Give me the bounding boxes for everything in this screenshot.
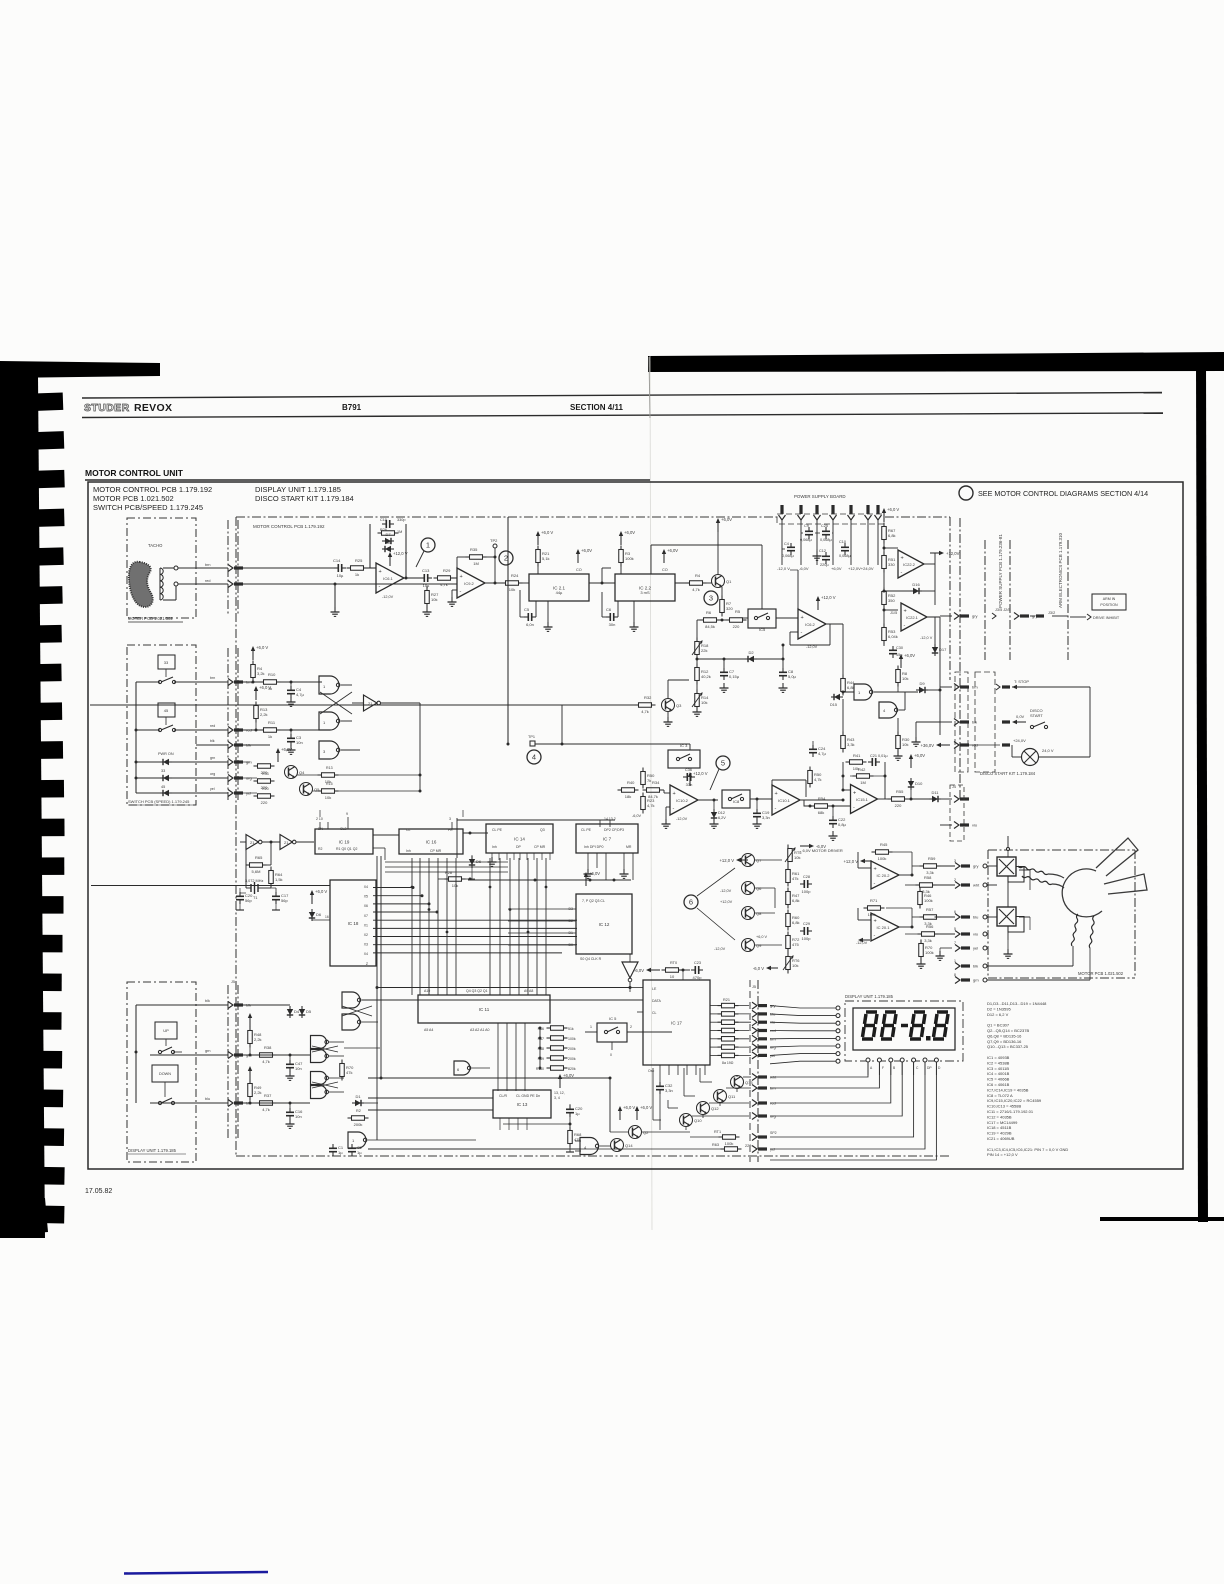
IC2.1 gnd (547, 601, 549, 625)
svg-text:DISCO START KIT 1.179.184: DISCO START KIT 1.179.184 (255, 494, 354, 503)
resistor R13c (322, 773, 335, 778)
svg-text:D15: D15 (830, 703, 837, 707)
svg-text:IC1,IC3,IC4,IC5,IC6,IC21: PI: IC1,IC3,IC4,IC5,IC6,IC21: PIN 7 = 0,0 V … (987, 1147, 1068, 1152)
callout 4 (527, 750, 541, 764)
IC18 wires right (373, 887, 413, 889)
svg-text:R6: R6 (706, 610, 712, 615)
svg-text:CL PE: CL PE (581, 828, 592, 832)
clock vertical B (380, 856, 382, 1078)
ic IC2.1 (529, 574, 589, 601)
svg-text:D1,D3...D11,D13...D19 = 1N4448: D1,D3...D11,D13...D19 = 1N4448 (987, 1001, 1047, 1006)
resistor R29 (438, 576, 451, 581)
svg-text:PWR ON: PWR ON (158, 752, 174, 756)
svg-text:IC2 = 4538B: IC2 = 4538B (987, 1060, 1010, 1065)
svg-text:IC 19: IC 19 (339, 840, 350, 845)
wire Q1 base (703, 582, 712, 584)
osc wires (240, 841, 246, 843)
svg-text:6,8k: 6,8k (792, 920, 800, 925)
svg-text:R65: R65 (255, 855, 263, 860)
svg-text:brn: brn (205, 563, 211, 567)
svg-text:IC22.2: IC22.2 (903, 562, 916, 567)
svg-text:IC17 = MC14499: IC17 = MC14499 (987, 1120, 1018, 1125)
svg-text:X5: X5 (364, 895, 368, 899)
svg-text:Q8: Q8 (756, 911, 762, 916)
svg-text:10k: 10k (902, 676, 908, 681)
resistor R40 (622, 788, 635, 793)
svg-text:J1/5: J1/5 (890, 611, 897, 615)
wire TP1 (535, 743, 690, 745)
svg-text:7: 7 (954, 941, 956, 945)
svg-text:+6,0 V: +6,0 V (541, 530, 553, 535)
svg-text:2: 2 (954, 878, 956, 882)
svg-text:-12,0V: -12,0V (382, 595, 394, 599)
svg-text:-12,0V: -12,0V (806, 645, 818, 649)
svg-text:J5: J5 (231, 980, 235, 984)
resistor R70 (340, 1064, 345, 1077)
svg-text:Q3: Q3 (540, 828, 545, 832)
driver wires (743, 1076, 751, 1078)
svg-text:J5: J5 (752, 985, 756, 989)
resistor R67 (882, 527, 887, 540)
svg-text:+12,0 V: +12,0 V (393, 551, 408, 556)
svg-text:IC15.1: IC15.1 (856, 797, 869, 802)
svg-text:-: - (460, 589, 462, 595)
resistor R56 (922, 932, 935, 937)
IC12 wires left (508, 908, 576, 910)
latch cross (341, 684, 352, 686)
svg-text:gry: gry (973, 864, 979, 869)
wire Q3 up (667, 680, 669, 699)
svg-text:IC18 = 4511B: IC18 = 4511B (987, 1125, 1012, 1130)
pwr rt0 (650, 969, 660, 971)
svg-text:J3/2: J3/2 (1048, 611, 1055, 615)
gate IC4b (580, 1138, 599, 1155)
disco row blk (954, 719, 959, 726)
pwr +6 below (900, 658, 902, 668)
svg-text:3: 3 (954, 859, 956, 863)
svg-text:100k: 100k (625, 556, 634, 561)
svg-text:R55: R55 (896, 789, 904, 794)
wire row brn (243, 681, 262, 683)
svg-text:IC 11: IC 11 (479, 1007, 490, 1012)
svg-text:10k: 10k (792, 963, 798, 968)
page fold line (650, 356, 652, 1230)
wire J15 (940, 615, 952, 617)
ic IC13 (493, 1090, 551, 1118)
svg-text:6,04k: 6,04k (888, 634, 898, 639)
svg-text:4,7k: 4,7k (647, 803, 655, 808)
wire long y705 (90, 704, 639, 706)
resistor R72 (786, 936, 791, 949)
svg-text:SP2: SP2 (770, 1131, 777, 1135)
resistor R32 (639, 703, 652, 708)
du row2 (150, 1054, 228, 1056)
svg-text:+6,0 V: +6,0 V (887, 507, 899, 512)
pot R18 (695, 642, 700, 655)
svg-text:6,0n: 6,0n (526, 622, 534, 627)
transistor Q8 (742, 907, 755, 920)
svg-text:CL: CL (652, 1011, 657, 1015)
svg-text:Q2...Q5,Q14 = BC237B: Q2...Q5,Q14 = BC237B (987, 1028, 1029, 1033)
svg-text:200k: 200k (568, 1057, 576, 1061)
svg-text:MOTOR CONTROL PCB 1.179.192: MOTOR CONTROL PCB 1.179.192 (93, 485, 212, 494)
svg-text:F: F (882, 1066, 884, 1070)
svg-text:IC 3: IC 3 (680, 743, 688, 748)
feedback network C15 (382, 523, 386, 525)
svg-text:blk: blk (205, 999, 210, 1003)
zener D17 (934, 644, 936, 656)
svg-text:IC4 = 4001B: IC4 = 4001B (987, 1071, 1010, 1076)
svg-text:grn: grn (210, 756, 215, 760)
hall sensor H2 (997, 907, 1016, 926)
resistor R41 (850, 760, 863, 765)
svg-text:D2: D2 (748, 650, 754, 655)
wire ic101 fb (771, 780, 773, 793)
disco gnd (940, 721, 952, 723)
svg-text:+6,0V: +6,0V (904, 653, 915, 658)
svg-text:IC8 = TL072 A: IC8 = TL072 A (987, 1093, 1013, 1098)
svg-text:2: 2 (504, 554, 508, 563)
svg-text:IC 14: IC 14 (514, 837, 525, 842)
svg-text:C13: C13 (422, 568, 430, 573)
tacho wire red (175, 584, 177, 600)
svg-text:grn: grn (973, 978, 979, 983)
svg-text:PIN 14 = +12,0 V: PIN 14 = +12,0 V (987, 1152, 1018, 1157)
svg-text:X6: X6 (364, 904, 368, 908)
main frame (88, 482, 1183, 1169)
wire LE long (377, 987, 630, 989)
svg-text:D12: D12 (718, 811, 725, 815)
svg-text:IC 20.1: IC 20.1 (877, 925, 891, 930)
opamp IC6.2 (798, 609, 826, 639)
driver emitters (736, 1089, 738, 1093)
svg-text:X4: X4 (364, 952, 368, 956)
svg-text:-6,0V: -6,0V (632, 814, 642, 818)
IC7 bottom stubs (587, 853, 589, 871)
svg-text:ARM IN: ARM IN (1103, 597, 1116, 601)
svg-text:10k: 10k (452, 883, 458, 888)
svg-text:0,068µ: 0,068µ (782, 554, 795, 558)
wire IC22 out (675, 582, 689, 584)
svg-text:X1: X1 (364, 923, 368, 927)
svg-text:CL2: CL2 (340, 827, 346, 831)
resistor R13b (254, 706, 259, 719)
resistor R21 (536, 550, 541, 563)
resistor R3 (619, 550, 624, 563)
zener D12 (713, 809, 715, 821)
svg-text:Q7: Q7 (756, 858, 762, 863)
pwr +6 r13 (255, 690, 257, 700)
svg-text:C10: C10 (839, 540, 846, 544)
svg-text:IC6 = 4061B: IC6 = 4061B (987, 1082, 1010, 1087)
opamp IC15.1 (851, 785, 878, 814)
svg-text:-: - (379, 584, 381, 590)
svg-text:47k: 47k (346, 1070, 352, 1075)
svg-text:IC 7: IC 7 (603, 837, 612, 842)
resistor R35 (470, 555, 483, 560)
svg-text:D12 = 6,2 V: D12 = 6,2 V (987, 1012, 1009, 1017)
svg-text:-: - (801, 630, 803, 636)
svg-text:5,6M: 5,6M (252, 869, 261, 874)
transistor Q4 (285, 766, 298, 779)
wire IC13 row (503, 1123, 570, 1125)
svg-text:CP MR: CP MR (430, 849, 442, 853)
motor control pcb frame bottom (236, 1155, 950, 1157)
svg-text:IC8: IC8 (733, 799, 740, 804)
svg-text:CL: CL (406, 828, 411, 832)
svg-text:+6,0V: +6,0V (721, 517, 732, 522)
IC9.2 out wire (485, 582, 506, 584)
pwr +6 Q1 (717, 522, 719, 532)
gate IC1b (879, 702, 897, 718)
resistor R20b (258, 794, 271, 799)
title underline (85, 479, 650, 481)
gate IC out (348, 1132, 366, 1148)
node R5R6 (717, 619, 729, 621)
cap C5 (524, 616, 528, 618)
svg-text:IC22.1: IC22.1 (906, 615, 919, 620)
IC19-16 wire (373, 834, 399, 836)
binding top bar (0, 361, 160, 378)
svg-text:IC21 = 4069UB: IC21 = 4069UB (987, 1136, 1015, 1141)
TP1 (530, 741, 535, 746)
blue pen line (124, 1572, 268, 1574)
svg-text:+: + (801, 615, 804, 621)
callout 1 (421, 538, 435, 552)
svg-text:-: - (904, 623, 906, 629)
svg-text:R11: R11 (268, 720, 276, 725)
header fold tick (649, 357, 650, 418)
pwr +12 q7 (740, 859, 748, 861)
svg-text:yel: yel (973, 946, 978, 951)
resistor R58 (920, 883, 933, 888)
svg-text:2: 2 (630, 1025, 632, 1029)
switch 33 (158, 680, 161, 683)
svg-text:D2 = 1N3595: D2 = 1N3595 (987, 1006, 1011, 1011)
svg-text:Osc: Osc (648, 1069, 654, 1073)
wire to IC9.2 (452, 577, 457, 579)
gate outputs (362, 1021, 378, 1023)
cap C20 (239, 892, 241, 896)
header top rule (82, 393, 1162, 399)
svg-text:3,3k: 3,3k (847, 742, 855, 747)
wire r57 (912, 916, 922, 918)
switch pcb dashed box (127, 645, 196, 805)
svg-text:220: 220 (895, 803, 902, 808)
svg-text:Q3: Q3 (676, 703, 682, 708)
pwr +6 d10 (910, 758, 912, 768)
cap C20b (569, 1105, 571, 1109)
hall sensor H1 (997, 857, 1016, 876)
resistor R50b (641, 772, 646, 785)
svg-text:+: + (379, 569, 382, 575)
svg-text:X2: X2 (364, 933, 368, 937)
psb gnd (816, 551, 818, 556)
svg-text:1: 1 (590, 1025, 592, 1029)
svg-text:Q6,Q8 = BD135-16: Q6,Q8 = BD135-16 (987, 1033, 1022, 1038)
svg-text:+6,0V: +6,0V (624, 530, 635, 535)
opamp IC20.2 (871, 861, 899, 889)
svg-text:100p: 100p (802, 936, 812, 941)
resistor R57 (924, 915, 937, 920)
svg-text:+6,0V: +6,0V (281, 747, 292, 752)
svg-text:IC10,IC13 = 4558B: IC10,IC13 = 4558B (987, 1104, 1021, 1109)
svg-text:IC12 = 4035B: IC12 = 4035B (987, 1114, 1012, 1119)
pwr +12 ic102 (689, 776, 691, 786)
svg-text:10n: 10n (295, 1066, 302, 1071)
box 33 (158, 655, 175, 669)
transistor Q9 (742, 939, 755, 952)
svg-text:IC10.1: IC10.1 (778, 798, 791, 803)
svg-text:CO: CO (662, 568, 668, 572)
svg-text:4,7k: 4,7k (814, 777, 822, 782)
svg-text:IC3 = 4011B: IC3 = 4011B (987, 1066, 1009, 1071)
bus horizontals (385, 861, 508, 863)
transistor Q1 (712, 575, 725, 588)
svg-text:6,8k: 6,8k (792, 898, 800, 903)
svg-text:X3: X3 (364, 943, 368, 947)
svg-text:grn: grn (205, 1049, 211, 1053)
display dash frame (845, 1001, 963, 1061)
svg-text:SEE MOTOR CONTROL DIAGRAMS: SEE MOTOR CONTROL DIAGRAMS SECTION 4/14 (978, 489, 1148, 498)
svg-text:POSITION: POSITION (1100, 603, 1118, 607)
resistor R47 (786, 892, 791, 905)
J4b conn (954, 822, 959, 829)
gate IC1a (854, 684, 872, 700)
svg-text:A10: A10 (424, 989, 430, 993)
svg-text:0,068µ: 0,068µ (800, 538, 813, 542)
svg-text:10µ: 10µ (423, 583, 430, 588)
IC19 top pins (319, 822, 321, 829)
drive inhibit (1087, 614, 1091, 620)
svg-text:200k: 200k (568, 1047, 576, 1051)
svg-text:D7: D7 (385, 532, 391, 537)
svg-text:Inh: Inh (492, 845, 497, 849)
svg-text:C12: C12 (819, 549, 826, 553)
resistor R6 (704, 618, 717, 623)
psb connector J1 pins (780, 505, 783, 514)
svg-text:LE: LE (652, 987, 657, 991)
cap C4b (290, 686, 292, 690)
svg-text:1,5k: 1,5k (275, 877, 283, 882)
svg-text:Inh: Inh (406, 849, 411, 853)
svg-text:START: START (1030, 713, 1043, 718)
svg-text:R2: R2 (318, 847, 323, 851)
wire IC21-IC22 (589, 582, 615, 584)
svg-text:Q10...Q13 = BC337-25: Q10...Q13 = BC337-25 (987, 1044, 1029, 1049)
tacho rotor (129, 562, 153, 607)
svg-text:5: 5 (721, 759, 725, 768)
svg-text:6: 6 (689, 898, 693, 907)
svg-text:DATA: DATA (652, 999, 661, 1003)
svg-text:-12,0V: -12,0V (676, 817, 688, 821)
display digit 3 (914, 1010, 925, 1013)
svg-text:+12,0 V: +12,0 V (843, 859, 858, 864)
transistor Q12 (697, 1102, 710, 1115)
svg-text:10k: 10k (902, 742, 908, 747)
resistor R10 (264, 680, 277, 685)
svg-text:S0 Q4 CLK R: S0 Q4 CLK R (580, 957, 602, 961)
see note circle (959, 486, 973, 500)
ic20 wires (788, 883, 800, 885)
wire ic202 out (899, 874, 912, 876)
svg-text:-: - (874, 881, 876, 887)
svg-text:IC6.1: IC6.1 (383, 576, 393, 581)
psb cap C4 (790, 543, 792, 547)
sw conn arrows (228, 679, 233, 686)
svg-text:R4: R4 (695, 573, 701, 578)
connector J3 dashes (227, 648, 229, 800)
pot R14 (695, 694, 700, 707)
resistor R68b (568, 1131, 573, 1144)
svg-text:1: 1 (954, 959, 956, 963)
wire net sw (419, 703, 421, 791)
IC16 top pin (451, 822, 453, 829)
ic IC19 (315, 829, 373, 854)
svg-text:3: 3 (449, 817, 451, 821)
transistor Q7 (742, 854, 755, 867)
gnd R14 (696, 707, 698, 712)
hall wires (987, 865, 997, 867)
svg-text:wht: wht (973, 883, 980, 888)
svg-text:T: STOP: T: STOP (1014, 679, 1029, 684)
svg-text:R24: R24 (511, 573, 519, 578)
opamp IC22.1 (901, 603, 927, 631)
svg-text:Inh DPI DP0: Inh DPI DP0 (584, 845, 604, 849)
svg-text:C21 0,01µ: C21 0,01µ (870, 754, 888, 758)
IC17 right resistors (722, 1003, 735, 1008)
display left conns (836, 1006, 840, 1010)
pwr +12 out (930, 552, 940, 554)
svg-text:R10: R10 (268, 672, 276, 677)
transistor Q6 (742, 882, 755, 895)
pwr +6 ic18 (311, 894, 313, 904)
diode D9 (916, 689, 928, 691)
tacho coil (159, 568, 161, 600)
svg-text:R21: R21 (723, 998, 730, 1002)
svg-text:Q4: Q4 (299, 770, 305, 775)
svg-text:-12,0 V: -12,0 V (920, 636, 933, 640)
svg-text:red: red (205, 579, 211, 583)
svg-text:brn: brn (972, 685, 978, 690)
svg-text:13, 12,: 13, 12, (554, 1091, 565, 1095)
svg-text:R71: R71 (870, 898, 878, 903)
svg-text:D10: D10 (915, 781, 923, 786)
svg-text:IC 20.2: IC 20.2 (877, 873, 891, 878)
resistor R59 (924, 864, 937, 869)
clock vertical A (376, 856, 378, 1140)
resistor R70b (919, 944, 924, 957)
motor conn rows (955, 863, 960, 870)
svg-text:R37: R37 (264, 1093, 272, 1098)
up switch (158, 1050, 161, 1053)
hall top stub (1007, 836, 1009, 850)
resistor R24 (506, 581, 519, 586)
svg-text:1k: 1k (268, 734, 272, 739)
inverter mid (622, 962, 638, 978)
svg-text:blk: blk (210, 739, 215, 743)
svg-text:3: 3 (709, 594, 713, 603)
wire gates (874, 691, 918, 693)
dashdot arm2 (1009, 540, 1011, 660)
svg-text:+6,0V: +6,0V (581, 548, 592, 553)
svg-text:J3/5 J2/5: J3/5 J2/5 (995, 608, 1010, 612)
svg-text:C4: C4 (784, 542, 789, 546)
svg-text:IC9.2: IC9.2 (464, 581, 474, 586)
svg-text:C29: C29 (803, 922, 810, 926)
resistor R8 (896, 670, 901, 683)
up box (155, 1022, 177, 1039)
